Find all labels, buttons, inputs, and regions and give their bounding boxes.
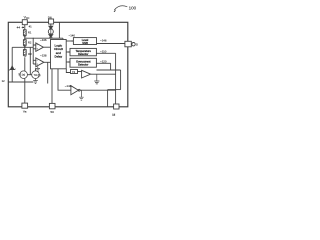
svg-text:Detector: Detector — [78, 52, 88, 56]
resistor R3 — [23, 50, 26, 56]
svg-text:Va: Va — [23, 110, 27, 114]
comparator triangle U2 — [36, 58, 44, 67]
out pad P3 on right border — [125, 41, 131, 47]
resistor R2 — [24, 35, 26, 39]
reference numeral 100 leader arrow — [114, 6, 127, 10]
jog wire y89.6 — [108, 89, 121, 91]
zener wire to emitter line — [11, 69, 13, 82]
node tap2 wire to rail and to zener stub — [12, 46, 33, 48]
svg-text:Delay: Delay — [54, 54, 62, 58]
temperature detector block B2 — [70, 48, 96, 55]
rail x115.6 down to bottom pad — [115, 53, 117, 104]
connector logic to B1 — [66, 40, 73, 42]
svg-text:Shift: Shift — [82, 41, 88, 45]
IC outer boundary box — [8, 22, 128, 107]
connector logic to B3 — [66, 61, 70, 63]
U1 input stubs — [33, 45, 36, 49]
wire B1 to out pad — [97, 43, 126, 45]
logic block bottom wire to U4 — [58, 69, 71, 90]
resistor R1 — [23, 30, 26, 36]
svg-text:~120: ~120 — [100, 60, 107, 64]
arrow of label 44 — [22, 27, 24, 28]
svg-text:~146: ~146 — [100, 39, 107, 43]
pad P2 on top border — [49, 19, 54, 24]
transistor Tr1 circle — [20, 71, 28, 79]
base link wire between Tr1 Tr2 — [27, 74, 31, 76]
overcurrent detector block B3 — [70, 58, 96, 67]
rail x110.6 short — [110, 63, 112, 70]
wire from U2 output down — [47, 62, 49, 83]
transistor Tr2 circle — [32, 71, 40, 79]
wire chain down to Tr1 — [24, 57, 26, 71]
driver triangle U4 — [71, 86, 79, 95]
U2 input stubs — [33, 60, 36, 64]
wire B3 to rail — [96, 62, 110, 64]
svg-text:Tr1 (a): Tr1 (a) — [18, 74, 25, 77]
wire B4 to U3 — [78, 71, 82, 73]
svg-text:100: 100 — [129, 5, 137, 10]
junction dots — [24, 38, 25, 39]
current source CS circle — [48, 29, 53, 34]
svg-text:D6: D6 — [48, 15, 52, 19]
pad P1 (Vcc) on top border — [22, 20, 27, 25]
diode D2 filled — [49, 35, 53, 38]
node tap1 wire across to logic — [25, 37, 63, 39]
svg-text:Detector: Detector — [78, 63, 88, 67]
level shift block B1 — [73, 38, 96, 45]
svg-text:12: 12 — [2, 79, 5, 83]
svg-text:Tr2 (b): Tr2 (b) — [34, 74, 41, 77]
svg-text:~136: ~136 — [40, 38, 47, 42]
external terminal circle — [132, 43, 135, 46]
logic block wire to buffer box — [66, 69, 70, 73]
bottom pad P6 — [114, 104, 119, 109]
wire Tr2 collector up — [35, 68, 37, 71]
wire B2 to rail — [96, 52, 115, 54]
logic block B0 — [51, 40, 67, 69]
ground under U3 — [94, 74, 99, 84]
buffer box B4 — [71, 70, 78, 74]
svg-text:VCC: VCC — [24, 15, 30, 20]
U2 output wire — [44, 61, 51, 63]
wire from pad P1 down — [24, 25, 26, 30]
U3 output wire — [91, 73, 116, 75]
comparator triangle U1 — [36, 43, 44, 52]
ground under Tr2 — [33, 79, 38, 84]
bottom pad P4 — [22, 103, 28, 108]
zener diode ZD — [10, 66, 14, 70]
emitter/ground wire — [8, 81, 33, 83]
svg-text:~148: ~148 — [65, 84, 72, 88]
svg-text:50: 50 — [50, 110, 54, 114]
svg-text:D: D — [136, 43, 138, 47]
U1 polarity marks — [37, 45, 38, 50]
svg-text:R1: R1 — [28, 30, 32, 34]
diode D1 filled — [49, 26, 53, 29]
connector logic to B2 — [66, 51, 70, 53]
U4 inverter bubble — [78, 89, 80, 91]
logic block bottom wire to pad — [51, 69, 53, 104]
input rail vertical — [32, 38, 34, 64]
U1 output wire — [43, 46, 50, 48]
rail x107.6 to bottom border — [107, 90, 109, 107]
U2 polarity marks — [37, 60, 38, 65]
vertical wire from top border to node — [58, 22, 60, 38]
wire pad P2 down — [50, 24, 52, 26]
svg-text:41: 41 — [29, 25, 33, 29]
svg-text:~140: ~140 — [69, 33, 76, 37]
driver triangle U3 — [82, 70, 91, 78]
rail x120.6 down — [120, 70, 122, 90]
ground under U2 — [36, 66, 40, 71]
svg-text:44: 44 — [17, 26, 21, 30]
svg-text:R2: R2 — [28, 40, 32, 44]
wire to Tr base region — [29, 47, 31, 74]
wire y70 to rail 120.6 — [97, 69, 121, 71]
ground under U4 — [79, 90, 84, 100]
bottom pad P5 — [49, 103, 55, 108]
zener stub down — [11, 47, 13, 66]
wire Tr1 down to bottom pad — [24, 79, 26, 104]
svg-text:~138: ~138 — [40, 54, 47, 58]
svg-text:M: M — [112, 113, 115, 117]
svg-text:R3: R3 — [28, 52, 32, 56]
arrow into logic block top — [62, 38, 64, 41]
svg-text:~110: ~110 — [100, 50, 107, 54]
U4 output wire — [80, 89, 116, 91]
